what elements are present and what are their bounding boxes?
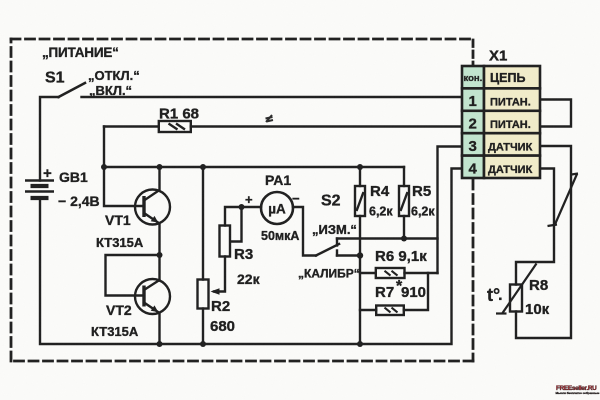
wire R3 wiper tap xyxy=(231,207,242,242)
junction R2 bottom rail xyxy=(200,341,206,347)
VT1 emitter arrow xyxy=(151,216,159,223)
junction R2 top xyxy=(200,164,206,170)
switch S2 contact KALIBR tick xyxy=(336,251,338,256)
wire R2 bottom lead xyxy=(202,309,204,345)
stray mark on wire xyxy=(266,115,274,122)
junction node A xyxy=(101,164,107,170)
wire pin4 to R8 top xyxy=(516,169,554,285)
wire R1 right lead to connector pin 2 xyxy=(191,125,462,127)
wire R4 bottom lead to KALIBR node xyxy=(359,216,361,256)
wire node A riser to VT1 base xyxy=(104,127,143,207)
battery GB1 xyxy=(25,181,54,199)
resistor R5 xyxy=(399,186,409,216)
wire R4 top lead xyxy=(359,167,361,186)
wire KALIBR contact line xyxy=(337,254,360,256)
junction VT1 collector xyxy=(157,164,163,170)
wire pin3 to R8 bottom xyxy=(516,146,571,338)
meter PA1 xyxy=(261,192,293,224)
wire VT2 emitter to bottom rail xyxy=(144,303,160,345)
connector X1 table xyxy=(462,66,540,178)
resistor R6 xyxy=(376,268,405,278)
junction R5 bottom xyxy=(401,236,407,242)
wire S1 left to battery top xyxy=(40,97,59,181)
thermistor R8 body xyxy=(510,285,522,312)
wire IZM contact line to pin3 riser xyxy=(337,237,438,239)
switch S2 contact IZM tick xyxy=(336,239,338,246)
wire R5 top lead xyxy=(403,167,405,186)
wire R3 bottom to R2 wiper xyxy=(214,257,225,292)
wire R7 left lead xyxy=(360,309,376,311)
wire VT2 base loop xyxy=(106,255,160,296)
VT2 emitter arrow xyxy=(151,305,159,312)
junction R4 top xyxy=(357,164,363,170)
wire battery bottom / bottom rail / pin4 left riser xyxy=(40,169,462,345)
wire R7 right lead up to R6 right xyxy=(404,273,428,310)
junction R7 left rail xyxy=(357,341,363,347)
wire VT1 emitter to VT2 collector xyxy=(144,213,160,281)
resistor R2 (potentiometer body) xyxy=(198,280,209,309)
thermistor R8 strike line xyxy=(496,264,537,314)
enclosure dashed border xyxy=(11,39,473,361)
wire R1 left lead xyxy=(104,125,159,127)
wire top collector rail xyxy=(104,166,404,168)
resistor R7 xyxy=(376,306,404,316)
transistor VT2 xyxy=(135,279,170,314)
junction VT1 emitter / VT2 base xyxy=(157,252,163,258)
R2 wiper arrowhead xyxy=(211,288,220,295)
wire KALIBR node down to bottom rail xyxy=(359,256,361,345)
wire R6 left lead xyxy=(360,272,376,274)
junction KALIBR node xyxy=(357,252,363,258)
wire R5 bottom lead xyxy=(403,216,405,239)
wire R6 right lead xyxy=(405,272,438,274)
wire PA1 minus to S2 common xyxy=(293,207,316,256)
wire R2 top lead xyxy=(202,167,204,280)
transistor VT1 xyxy=(135,190,170,225)
resistor R3 (trimmer body) xyxy=(220,226,231,257)
wire pin3 riser xyxy=(438,147,463,274)
junction VT2 emitter rail xyxy=(157,341,163,347)
resistor R1 xyxy=(159,121,191,132)
sensor cable strike mark xyxy=(548,174,579,227)
wire external jumper pin1 to pin2 xyxy=(540,100,571,127)
wire R3 top lead / PA1 plus node xyxy=(225,207,261,226)
wire VT2 collector diagonal xyxy=(144,280,160,290)
resistor R4 xyxy=(355,186,365,216)
t degree trailing dot xyxy=(499,298,502,301)
wire S1 contact to connector pin 1 xyxy=(82,96,463,98)
junction R3 wiper node xyxy=(239,204,245,210)
switch S1 lever xyxy=(59,83,86,97)
wire VT1 collector xyxy=(144,167,160,201)
switch S2 lever xyxy=(316,244,339,256)
paper grain overlay xyxy=(0,0,1,1)
